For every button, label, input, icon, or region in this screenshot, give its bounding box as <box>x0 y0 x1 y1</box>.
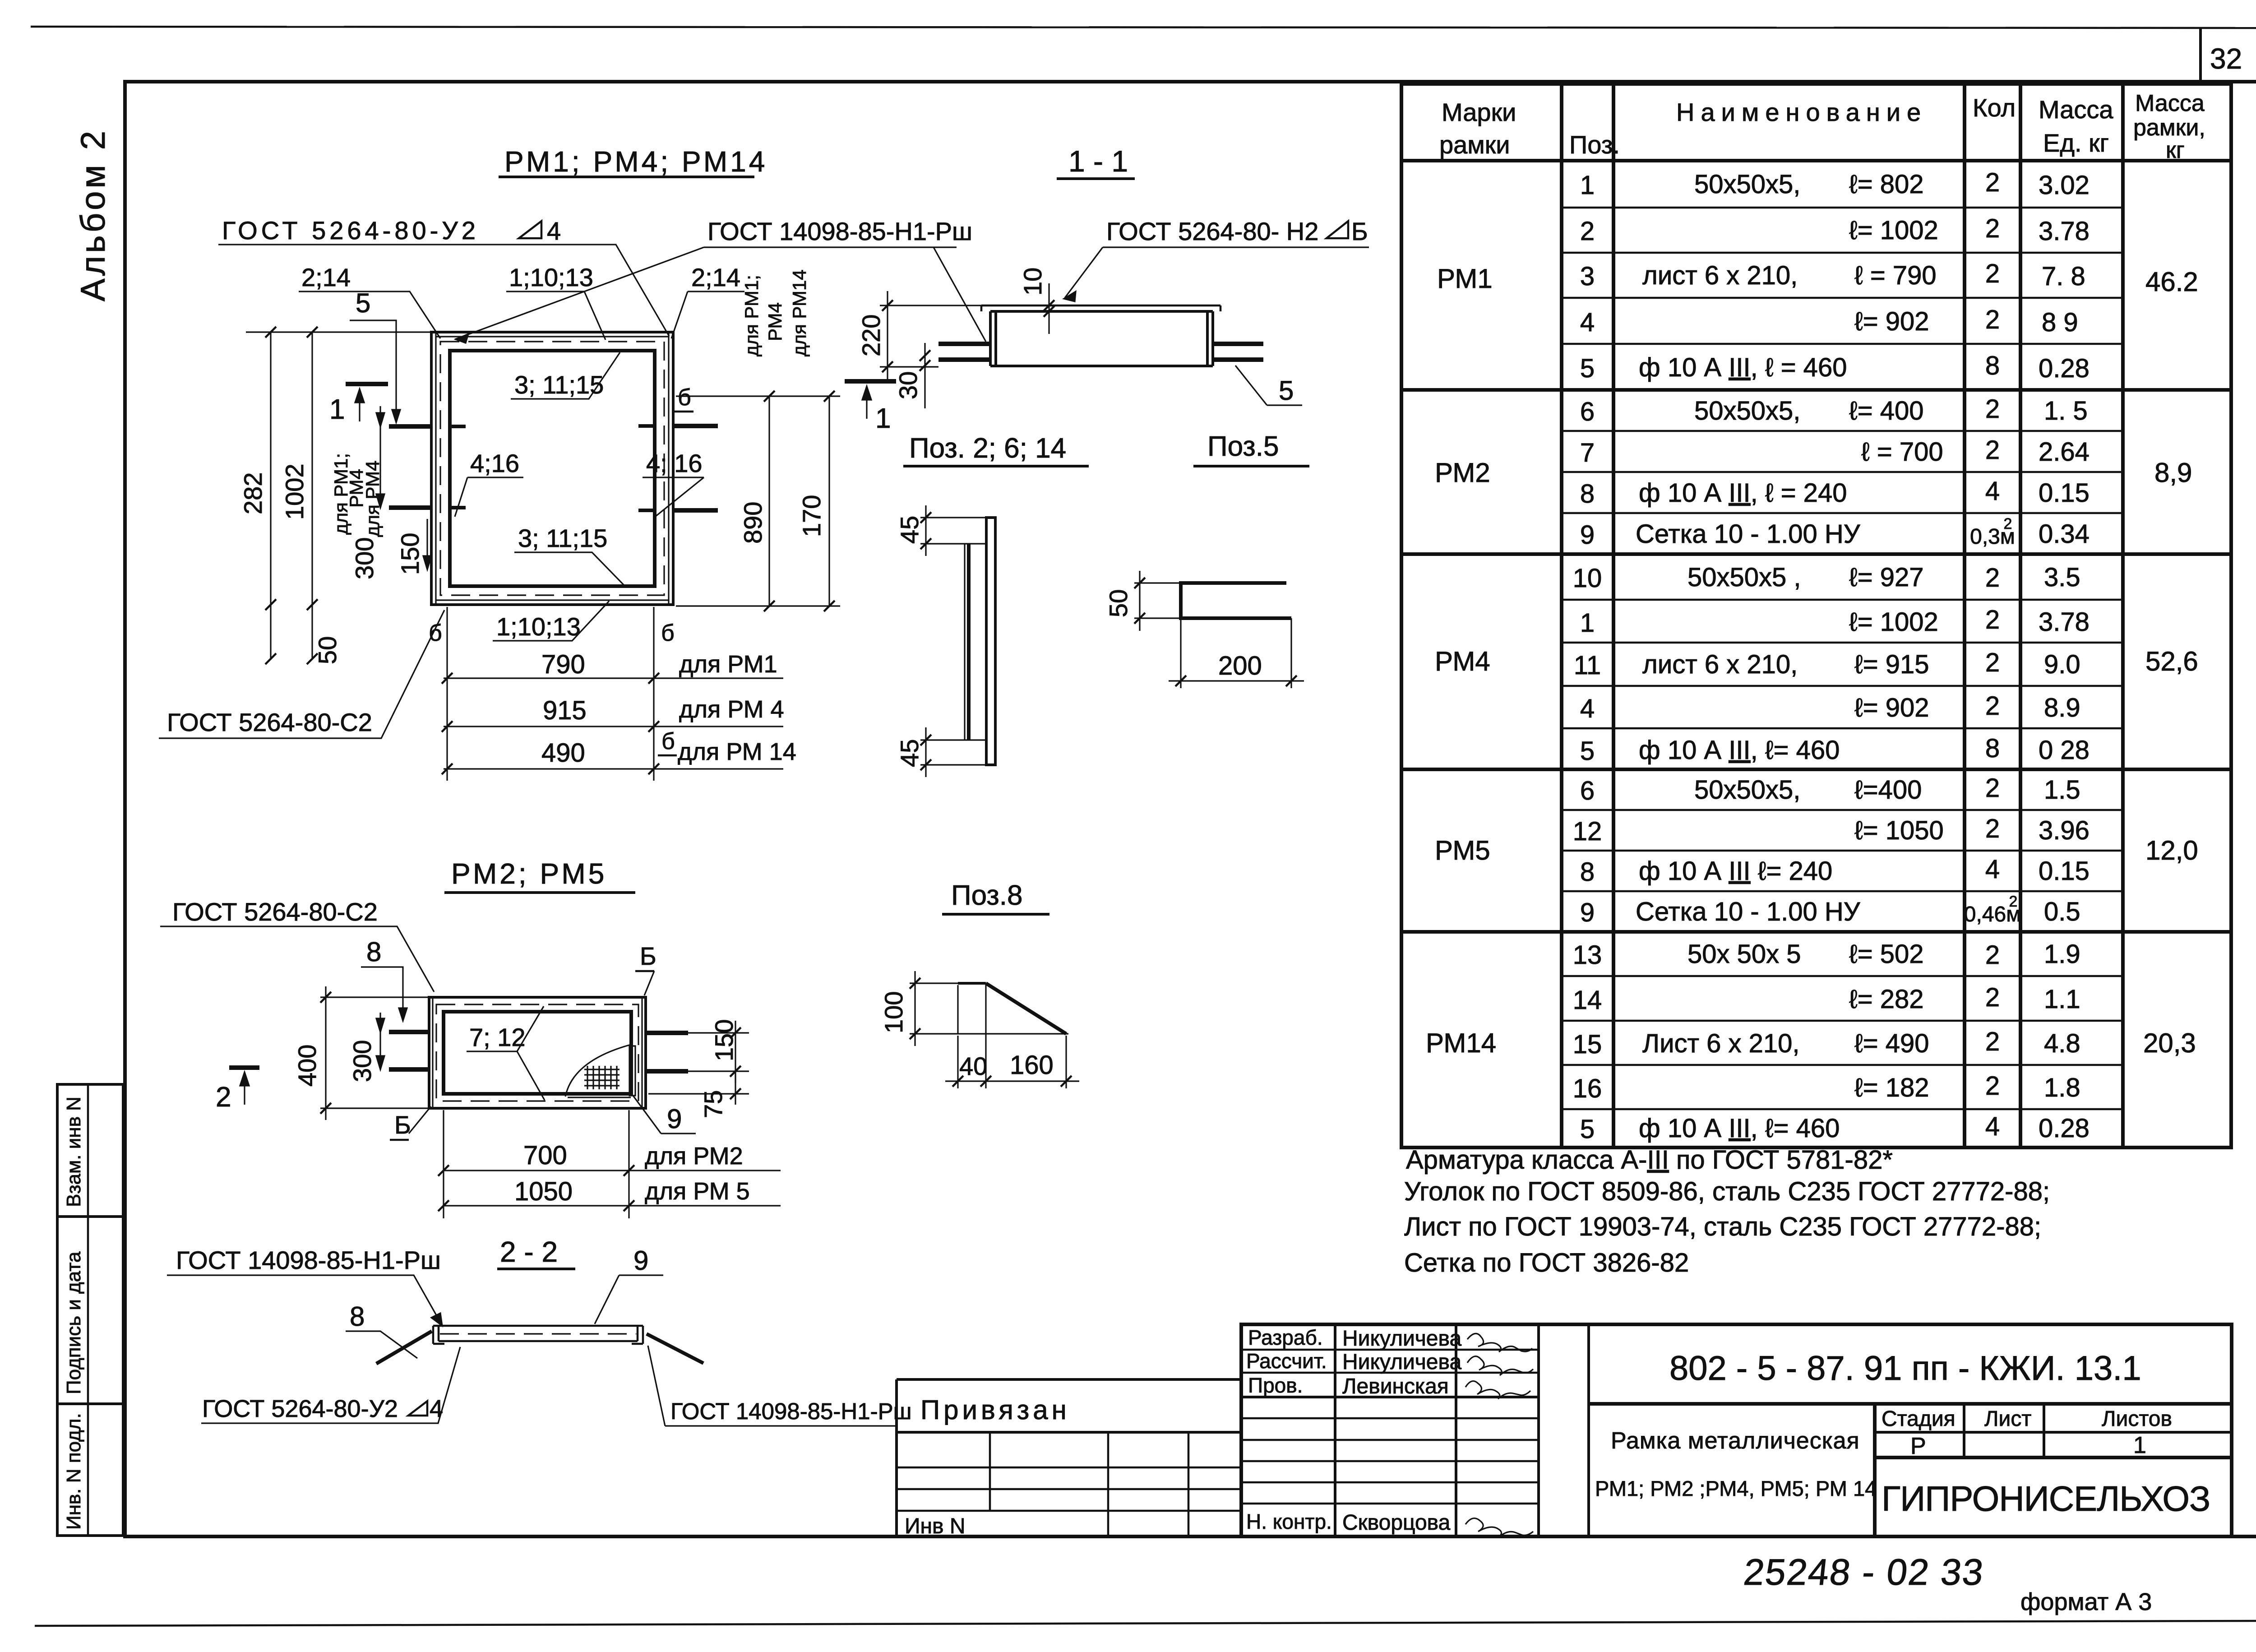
svg-text:30: 30 <box>894 371 922 399</box>
svg-text:Левинская: Левинская <box>1342 1374 1449 1398</box>
svg-text:4: 4 <box>1985 477 2000 506</box>
svg-text:2: 2 <box>216 1082 231 1113</box>
svg-text:РМ4: РМ4 <box>1435 646 1490 676</box>
svg-text:0.28: 0.28 <box>2039 354 2090 383</box>
wire stadia values bottom <box>1875 1456 2232 1459</box>
wire dim line 400 <box>325 986 326 1120</box>
svg-text:1: 1 <box>1580 608 1595 638</box>
wire pm2 bottom extensions <box>444 1110 629 1218</box>
wire dim line 1050 <box>444 1205 781 1206</box>
svg-text:Лист 6 х 210,: Лист 6 х 210, <box>1642 1029 1800 1058</box>
svg-text:2: 2 <box>1985 435 2000 465</box>
svg-text:50: 50 <box>1104 589 1133 617</box>
wire dim line 150 pm2 <box>735 1021 736 1083</box>
svg-text:4: 4 <box>1580 694 1595 723</box>
svg-text:9: 9 <box>633 1245 648 1276</box>
svg-text:Уголок по ГОСТ 8509-86, сталь: Уголок по ГОСТ 8509-86, сталь С235 ГОСТ … <box>1404 1177 2050 1206</box>
wire dim ext 50 <box>1134 583 1181 618</box>
frame PM2: dashed centerline <box>436 1004 638 1101</box>
node signatures script <box>1465 1333 1533 1537</box>
svg-text:Поз.5: Поз.5 <box>1207 431 1279 462</box>
svg-text:ℓ= 1050: ℓ= 1050 <box>1854 816 1944 845</box>
svg-text:ф 10 А III, ℓ = 240: ф 10 А III, ℓ = 240 <box>1639 478 1847 508</box>
svg-text:50: 50 <box>313 636 342 664</box>
wire leader 5 section <box>1235 366 1302 405</box>
svg-text:3.96: 3.96 <box>2039 816 2090 845</box>
svg-text:6: 6 <box>1580 397 1595 426</box>
frame PM2: outer rect <box>429 997 646 1108</box>
wire leader 3;11;15 lower <box>514 552 626 588</box>
svg-text:25248 - 02 33: 25248 - 02 33 <box>1742 1552 1986 1593</box>
svg-text:16: 16 <box>1573 1074 1602 1103</box>
svg-text:ℓ = 790: ℓ = 790 <box>1854 261 1937 290</box>
frame PM2: member thin lines <box>433 997 642 1108</box>
wire group line PM2/PM4 <box>1401 552 2231 556</box>
svg-text:Привязан: Привязан <box>920 1395 1070 1425</box>
svg-text:РМ14: РМ14 <box>1426 1028 1496 1058</box>
svg-text:2: 2 <box>2004 515 2012 532</box>
wire row lines group PM4 <box>1562 599 2123 601</box>
svg-text:2 - 2: 2 - 2 <box>500 1236 558 1268</box>
node section stubs right <box>1213 344 1263 360</box>
wire group line PM5/PM14 <box>1401 930 2231 934</box>
node plate bar <box>986 518 995 765</box>
svg-text:915: 915 <box>543 696 587 725</box>
svg-text:1: 1 <box>329 394 345 425</box>
node poz numbers <box>1573 171 1602 1144</box>
node bent bar poz5 <box>1181 583 1291 618</box>
frame PM1: inner rect <box>450 351 655 586</box>
svg-text:Масса: Масса <box>2135 90 2205 116</box>
wire pm2 left dim extensions <box>320 997 429 1108</box>
wire row lines group PM5 <box>1562 809 2123 811</box>
svg-text:Поз.: Поз. <box>1569 130 1620 159</box>
frame PM1: dashed centerline <box>440 342 664 595</box>
svg-text:2: 2 <box>1985 1071 2000 1101</box>
node pm2 stubs left <box>389 1032 430 1069</box>
svg-text:12,0: 12,0 <box>2145 835 2198 865</box>
wire dashed centerline sec22 <box>440 1333 636 1334</box>
svg-text:ℓ = 700: ℓ = 700 <box>1861 437 1943 467</box>
svg-text:7: 7 <box>1580 438 1595 467</box>
svg-text:1 - 1: 1 - 1 <box>1068 144 1128 178</box>
wire bottom dim line 915 <box>444 726 783 727</box>
frame PM2: inner rect <box>444 1012 631 1094</box>
svg-text:11: 11 <box>1574 651 1601 680</box>
svg-text:170: 170 <box>797 495 826 537</box>
node bottom dim ticks <box>442 673 659 774</box>
SECTION 2-2 <box>167 1236 912 1426</box>
svg-text:4; 16: 4; 16 <box>646 449 703 477</box>
svg-text:ГОСТ 5264-80-У2: ГОСТ 5264-80-У2 <box>222 216 479 245</box>
svg-text:3.02: 3.02 <box>2039 171 2090 200</box>
svg-text:3.78: 3.78 <box>2039 217 2090 246</box>
svg-text:0.15: 0.15 <box>2039 856 2090 886</box>
svg-text:2;14: 2;14 <box>691 263 740 292</box>
wire leader 1;10;13 top <box>506 292 606 340</box>
wire dim ext 40/160 <box>958 985 1066 1088</box>
node notes under table <box>1404 1145 2050 1277</box>
svg-text:Альбом 2: Альбом 2 <box>74 128 112 301</box>
svg-text:Рамка металлическая: Рамка металлическая <box>1611 1428 1860 1454</box>
node anchor stubs right (poz5) <box>672 426 718 510</box>
svg-text:2: 2 <box>1985 648 2000 677</box>
svg-text:8: 8 <box>1580 479 1595 509</box>
wire leader 7;12 <box>467 1006 545 1100</box>
svg-text:Наименование: Наименование <box>1676 98 1927 126</box>
svg-text:Сетка 10 - 1.00 НУ: Сетка 10 - 1.00 НУ <box>1636 897 1861 926</box>
svg-text:Лист: Лист <box>1984 1407 2031 1431</box>
wire column line Kol/Massa <box>2019 84 2022 1148</box>
svg-text:ℓ= 1002: ℓ= 1002 <box>1849 216 1938 245</box>
node bent plate poz8 <box>957 985 958 1034</box>
svg-text:790: 790 <box>541 650 585 679</box>
wire table outer border <box>1401 84 2231 1148</box>
svg-text:б: б <box>661 620 675 646</box>
svg-text:9.0: 9.0 <box>2044 650 2080 679</box>
svg-text:45: 45 <box>895 739 924 767</box>
svg-text:РМ2: РМ2 <box>1435 458 1490 488</box>
node section mark 2 left <box>229 1065 259 1070</box>
svg-text:4: 4 <box>430 1395 443 1422</box>
svg-text:Поз. 2; 6; 14: Поз. 2; 6; 14 <box>909 433 1066 464</box>
svg-text:для РМ1: для РМ1 <box>679 651 777 678</box>
wire bottom dim line 490 <box>444 768 783 769</box>
wire left dim extension top <box>246 331 431 333</box>
svg-text:300: 300 <box>350 537 379 579</box>
svg-text:4: 4 <box>1985 1112 2000 1141</box>
wire dim line 40 160 <box>945 1080 1079 1082</box>
svg-text:2: 2 <box>1985 1027 2000 1056</box>
svg-text:10: 10 <box>1018 268 1047 296</box>
svg-text:Р: Р <box>1910 1433 1926 1459</box>
svg-text:2: 2 <box>1985 605 2000 634</box>
svg-text:Арматура класса А-III по ГО: Арматура класса А-III по ГОСТ 5781-82* <box>1406 1145 1893 1175</box>
svg-text:ф 10 А III, ℓ= 460: ф 10 А III, ℓ= 460 <box>1639 736 1840 765</box>
svg-text:Никуличева: Никуличева <box>1342 1327 1461 1351</box>
wire title underline <box>497 1268 575 1270</box>
svg-text:б: б <box>661 728 675 754</box>
svg-text:ГОСТ 5264-80-У2: ГОСТ 5264-80-У2 <box>202 1395 398 1422</box>
wire pm2 right dim extensions <box>648 1033 749 1094</box>
svg-text:0.28: 0.28 <box>2039 1114 2090 1143</box>
svg-text:Лист по ГОСТ 19903-74, сталь: Лист по ГОСТ 19903-74, сталь С235 ГОСТ 2… <box>1404 1212 2041 1241</box>
svg-text:2: 2 <box>1985 773 2000 803</box>
wire column line Marki/Poz <box>1560 84 1563 1148</box>
node bar section 2-2 <box>433 1326 643 1344</box>
svg-text:Масса: Масса <box>2039 95 2113 124</box>
svg-text:ℓ= 902: ℓ= 902 <box>1854 693 1929 722</box>
svg-text:7; 12: 7; 12 <box>469 1023 526 1051</box>
svg-text:ГОСТ 14098-85-Н1-Рш: ГОСТ 14098-85-Н1-Рш <box>176 1246 441 1274</box>
svg-text:10: 10 <box>1573 564 1602 593</box>
DRAWING PM1/PM4/PM14 <box>159 145 986 781</box>
svg-text:15: 15 <box>1573 1030 1602 1059</box>
svg-text:РМ4: РМ4 <box>764 302 786 341</box>
svg-text:8,9: 8,9 <box>2154 458 2192 488</box>
wire dim line 75 <box>735 1071 736 1105</box>
svg-text:4: 4 <box>547 217 561 245</box>
svg-text:ℓ= 282: ℓ= 282 <box>1849 985 1924 1014</box>
node ticks 200 <box>1175 676 1297 686</box>
svg-text:ℓ= 502: ℓ= 502 <box>1849 939 1924 969</box>
svg-text:для РМ 4: для РМ 4 <box>679 696 784 723</box>
svg-text:2: 2 <box>2009 893 2018 910</box>
svg-text:3; 11;15: 3; 11;15 <box>514 370 604 399</box>
svg-text:1.8: 1.8 <box>2044 1073 2080 1102</box>
svg-text:2: 2 <box>1985 168 2000 197</box>
wire dim line 50 <box>1139 571 1140 631</box>
node right dim ticks <box>764 391 835 611</box>
wire leader 8 pm2 <box>361 967 403 1019</box>
wire leader 8 sec22 <box>346 1331 417 1358</box>
wire leader gost c2 <box>159 610 444 738</box>
svg-text:400: 400 <box>293 1045 321 1087</box>
wire leader gost u2 <box>218 245 669 336</box>
svg-text:Сетка по ГОСТ 3826-82: Сетка по ГОСТ 3826-82 <box>1404 1248 1689 1277</box>
wire leader 3;11;15 upper <box>511 352 620 399</box>
wire dim ext top 45 <box>920 518 986 544</box>
svg-text:кг: кг <box>2166 137 2185 163</box>
svg-text:Скворцова: Скворцова <box>1342 1511 1451 1535</box>
wire row lines group PM2 <box>1562 430 2123 432</box>
svg-text:для РМ 5: для РМ 5 <box>645 1178 750 1205</box>
PRIVYAZAN BOX <box>897 1379 1241 1538</box>
wire vertical line signatures end <box>1537 1324 1540 1536</box>
svg-text:Ед. кг: Ед. кг <box>2043 129 2109 157</box>
wire right dim extensions <box>676 396 840 606</box>
wire stadia box left <box>1873 1404 1877 1536</box>
svg-text:2: 2 <box>1985 394 2000 424</box>
frame PM1: outer rect <box>431 332 673 605</box>
svg-text:Н. контр.: Н. контр. <box>1246 1510 1332 1533</box>
wire left stamp outline <box>57 1084 123 1536</box>
wire group line PM1/PM2 <box>1401 388 2231 392</box>
svg-text:ГОСТ 14098-85-Н1-Рш: ГОСТ 14098-85-Н1-Рш <box>707 217 972 245</box>
wire leader 1;10;13 bottom <box>493 601 609 641</box>
svg-text:1.5: 1.5 <box>2044 775 2080 805</box>
svg-text:0 28: 0 28 <box>2039 736 2090 765</box>
wire leader gost14098 br sec22 <box>648 1346 897 1426</box>
svg-text:ГОСТ 5264-80- Н2: ГОСТ 5264-80- Н2 <box>1106 217 1318 245</box>
svg-text:Разраб.: Разраб. <box>1248 1326 1323 1349</box>
wire dim 220 extension <box>880 305 981 367</box>
svg-text:Пров.: Пров. <box>1248 1374 1303 1397</box>
node massa values <box>2039 171 2090 1143</box>
wire dim line 282 <box>270 332 271 659</box>
node arrows 300 pm2 <box>376 1018 384 1069</box>
wire leader B pm2 <box>644 971 654 995</box>
svg-text:8: 8 <box>350 1301 365 1332</box>
wire column line Massa/MassaRamki <box>2121 84 2125 1148</box>
svg-text:2: 2 <box>1985 214 2000 243</box>
wire column line Poz/Naimenovanie <box>1612 84 1615 1148</box>
svg-text:8: 8 <box>1985 351 2000 380</box>
svg-text:ℓ= 902: ℓ= 902 <box>1854 307 1929 336</box>
svg-text:ℓ= 915: ℓ= 915 <box>1854 650 1929 679</box>
node tick 75 <box>730 1088 741 1099</box>
svg-text:1;10;13: 1;10;13 <box>509 263 593 292</box>
svg-text:РМ5: РМ5 <box>1435 835 1490 865</box>
wire row lines group PM14 <box>1562 975 2123 977</box>
node ticks 40 160 <box>952 1076 1072 1087</box>
svg-text:1050: 1050 <box>514 1177 573 1206</box>
DRAWING PM2/PM5 <box>160 857 781 1218</box>
left margin stamp boxes <box>57 1084 123 1536</box>
svg-text:3.78: 3.78 <box>2039 607 2090 637</box>
node ticks 45 bottom <box>920 735 931 770</box>
node kol values <box>1964 168 2021 1141</box>
svg-text:890: 890 <box>739 502 767 544</box>
svg-text:ℓ= 182: ℓ= 182 <box>1854 1073 1929 1102</box>
svg-text:Сетка 10 - 1.00 НУ: Сетка 10 - 1.00 НУ <box>1636 519 1861 549</box>
wire dim line 1002 <box>311 332 313 659</box>
svg-text:7. 8: 7. 8 <box>2042 262 2085 291</box>
svg-text:ф 10 А III, ℓ = 460: ф 10 А III, ℓ = 460 <box>1639 353 1847 382</box>
wire stadia header underline <box>1875 1431 2232 1434</box>
svg-text:220: 220 <box>857 315 885 356</box>
svg-text:ГОСТ 14098-85-Н1-Рш: ГОСТ 14098-85-Н1-Рш <box>670 1398 912 1424</box>
svg-text:Стадия: Стадия <box>1882 1407 1956 1431</box>
wire stadia/list divider <box>1963 1404 1965 1458</box>
svg-text:8: 8 <box>1985 734 2000 763</box>
svg-text:ℓ=400: ℓ=400 <box>1854 775 1922 805</box>
node ticks 400 <box>320 992 331 1114</box>
wire title underline <box>1193 465 1309 467</box>
svg-text:для РМ 14: для РМ 14 <box>678 738 796 765</box>
node role labels <box>1246 1326 1332 1533</box>
svg-text:50х50х5,: 50х50х5, <box>1694 170 1800 199</box>
wire leader 4;16 left <box>455 477 523 517</box>
node ticks 150 pm2 <box>730 1027 741 1077</box>
wire bottom thin border line <box>35 1621 2256 1626</box>
svg-text:160: 160 <box>1010 1050 1054 1080</box>
svg-text:лист 6 х 210,: лист 6 х 210, <box>1642 261 1798 290</box>
svg-text:РМ1: РМ1 <box>1437 264 1493 294</box>
svg-text:Марки: Марки <box>1442 98 1516 126</box>
wire vertical line narrow col <box>1587 1324 1590 1536</box>
svg-text:5: 5 <box>1580 354 1595 383</box>
wire leader 4;16 right <box>643 477 704 517</box>
wire list/listov divider <box>2043 1404 2045 1458</box>
svg-text:3: 3 <box>1580 262 1595 291</box>
wire leader gost14098 sec22 <box>167 1275 441 1324</box>
wire title block outer <box>1241 1324 2232 1536</box>
wire bottom extension lines <box>447 607 654 781</box>
svg-text:Взам. инв N: Взам. инв N <box>63 1097 85 1207</box>
node pm2 stubs right <box>645 1033 688 1071</box>
svg-text:2;14: 2;14 <box>301 263 351 292</box>
svg-text:1: 1 <box>1580 171 1595 200</box>
svg-text:Рассчит.: Рассчит. <box>1246 1349 1327 1373</box>
node group masses <box>2143 267 2198 1058</box>
svg-text:2: 2 <box>1985 983 2000 1012</box>
wire privyazan subgrid <box>897 1432 1241 1536</box>
svg-text:Б: Б <box>1351 217 1368 245</box>
wire header bottom line <box>1401 159 2231 162</box>
node ticks 50 <box>1134 578 1145 624</box>
wire dim line 200 <box>1169 680 1304 681</box>
node names <box>1342 1327 1461 1535</box>
wire row lines group PM1 <box>1562 207 2123 209</box>
node bottom ticks pm2 <box>438 1165 634 1211</box>
svg-text:2: 2 <box>1985 940 2000 970</box>
wire dim ext bottom 45 <box>920 740 986 765</box>
node page number box 32 <box>2199 28 2202 82</box>
svg-text:ГОСТ 5264-80-С2: ГОСТ 5264-80-С2 <box>167 708 372 736</box>
wire title underline <box>942 913 1049 916</box>
svg-text:12: 12 <box>1573 817 1602 846</box>
svg-text:5: 5 <box>1580 736 1595 766</box>
svg-text:50х 50х 5: 50х 50х 5 <box>1687 939 1801 969</box>
wire dim line 30 <box>924 343 925 408</box>
svg-text:1.9: 1.9 <box>2044 939 2080 969</box>
node ticks 45 top <box>920 512 931 549</box>
svg-text:45: 45 <box>895 516 924 544</box>
svg-text:282: 282 <box>239 472 267 514</box>
svg-text:ℓ= 1002: ℓ= 1002 <box>1849 607 1938 637</box>
wire leader 9 sec22 <box>595 1275 663 1324</box>
wire leader gost 14098 <box>455 247 986 342</box>
svg-text:50х50х5,: 50х50х5, <box>1694 775 1800 805</box>
node naimenovanie texts <box>1636 170 1944 1143</box>
wire top thin border line <box>31 27 2256 28</box>
svg-text:РМ2; РМ5: РМ2; РМ5 <box>451 857 607 890</box>
svg-text:52,6: 52,6 <box>2145 646 2198 676</box>
svg-text:ℓ= 400: ℓ= 400 <box>1849 396 1924 426</box>
svg-text:1002: 1002 <box>280 463 309 520</box>
SECTION 1-1 <box>857 144 1369 408</box>
svg-text:2: 2 <box>1985 259 2000 288</box>
svg-text:1: 1 <box>875 403 891 434</box>
svg-text:3; 11;15: 3; 11;15 <box>518 524 607 552</box>
wire dim line 45 bottom <box>925 727 926 777</box>
svg-text:5: 5 <box>1279 375 1294 406</box>
svg-text:5: 5 <box>356 288 370 318</box>
wire bottom dim line 790 <box>444 677 783 679</box>
node dim ticks 30 <box>920 350 930 371</box>
svg-text:Кол: Кол <box>1973 93 2016 122</box>
node stub ticks inside <box>451 426 653 510</box>
svg-text:2: 2 <box>1985 563 2000 592</box>
wire dim ext 100 <box>910 983 1068 1034</box>
svg-text:50х50х5 ,: 50х50х5 , <box>1687 563 1801 592</box>
wire vertical line labels/names <box>1334 1324 1336 1536</box>
node section stubs left <box>938 344 990 360</box>
svg-text:Инв. N подл.: Инв. N подл. <box>63 1413 85 1530</box>
node ticks 100 <box>910 978 920 1039</box>
svg-text:1. 5: 1. 5 <box>2044 396 2088 426</box>
svg-text:2.64: 2.64 <box>2039 437 2090 467</box>
node dim ticks 10 <box>1044 300 1054 317</box>
svg-text:лист 6 х 210,: лист 6 х 210, <box>1642 650 1798 679</box>
wire leader b pm2 <box>409 1106 431 1134</box>
wire dim line 170 <box>828 396 830 606</box>
wire leader gost n2 <box>1065 247 1369 298</box>
wire title underline <box>1057 177 1135 180</box>
wire leader 5 <box>350 320 396 420</box>
svg-text:5: 5 <box>1580 1115 1595 1144</box>
svg-text:2: 2 <box>1580 217 1595 246</box>
node section bar: top plate <box>981 305 1220 311</box>
wire dim line 700 <box>444 1170 781 1171</box>
svg-text:Инв N: Инв N <box>905 1514 966 1538</box>
svg-text:4: 4 <box>1985 855 2000 884</box>
svg-text:1: 1 <box>2133 1432 2146 1458</box>
svg-text:3.5: 3.5 <box>2044 563 2080 592</box>
svg-text:б: б <box>429 620 442 646</box>
node weld right sec22 <box>647 1334 703 1363</box>
